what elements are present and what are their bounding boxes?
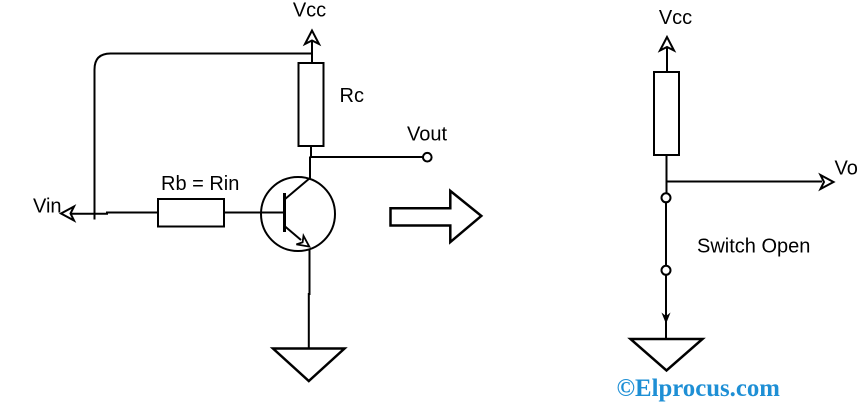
svg-text:Vo: Vo xyxy=(835,158,858,180)
resistor (right pull-up) xyxy=(654,72,679,155)
wire between switch terminals xyxy=(665,203,667,266)
label Rc xyxy=(340,85,364,107)
ground (right) xyxy=(631,339,703,371)
wire Rb to base xyxy=(224,212,285,214)
wire node to Vo xyxy=(667,181,823,183)
svg-text:Rb = Rin: Rb = Rin xyxy=(161,173,239,195)
ground (left) xyxy=(273,349,345,382)
resistor Rc xyxy=(299,63,324,146)
label Vcc (right) xyxy=(659,7,692,29)
arrow Vin (pointing left) xyxy=(61,207,74,221)
switch terminal (bottom) xyxy=(662,266,671,275)
svg-text:Rc: Rc xyxy=(340,85,364,107)
label Rb = Rin xyxy=(161,173,239,195)
label Vcc (left) xyxy=(293,0,326,22)
wire collector to node xyxy=(309,157,311,179)
power arrow Vcc (left) xyxy=(305,31,319,64)
label Vin xyxy=(33,196,62,218)
svg-text:Vcc: Vcc xyxy=(293,0,326,22)
wire feedback (collector supply to Vin rail) xyxy=(95,54,312,220)
wire Vin to Rb xyxy=(71,213,159,214)
wire node to Vout terminal xyxy=(310,156,423,158)
wire Rc bottom to node xyxy=(310,146,312,157)
svg-text:Vout: Vout xyxy=(407,124,447,146)
watermark Elprocus xyxy=(617,375,781,402)
label Switch Open xyxy=(697,236,810,258)
svg-text:©Elprocus.com: ©Elprocus.com xyxy=(617,375,781,402)
power arrow Vcc (right) xyxy=(660,37,674,72)
svg-text:Switch Open: Switch Open xyxy=(697,236,810,258)
transistor Q1 (NPN) xyxy=(261,177,335,251)
resistor Rb xyxy=(158,199,224,227)
switch terminal (top) xyxy=(662,193,671,202)
block arrow (equivalence) xyxy=(391,191,482,242)
terminal Vout xyxy=(423,153,432,162)
wire switch to ground xyxy=(663,275,670,339)
arrow Vo (pointing right) xyxy=(821,175,834,189)
label Vout xyxy=(407,124,447,146)
wire resistor to switch xyxy=(666,155,668,193)
wire emitter to ground xyxy=(308,249,311,349)
svg-text:Vin: Vin xyxy=(33,196,62,218)
label Vo xyxy=(835,158,858,180)
svg-text:Vcc: Vcc xyxy=(659,7,692,29)
